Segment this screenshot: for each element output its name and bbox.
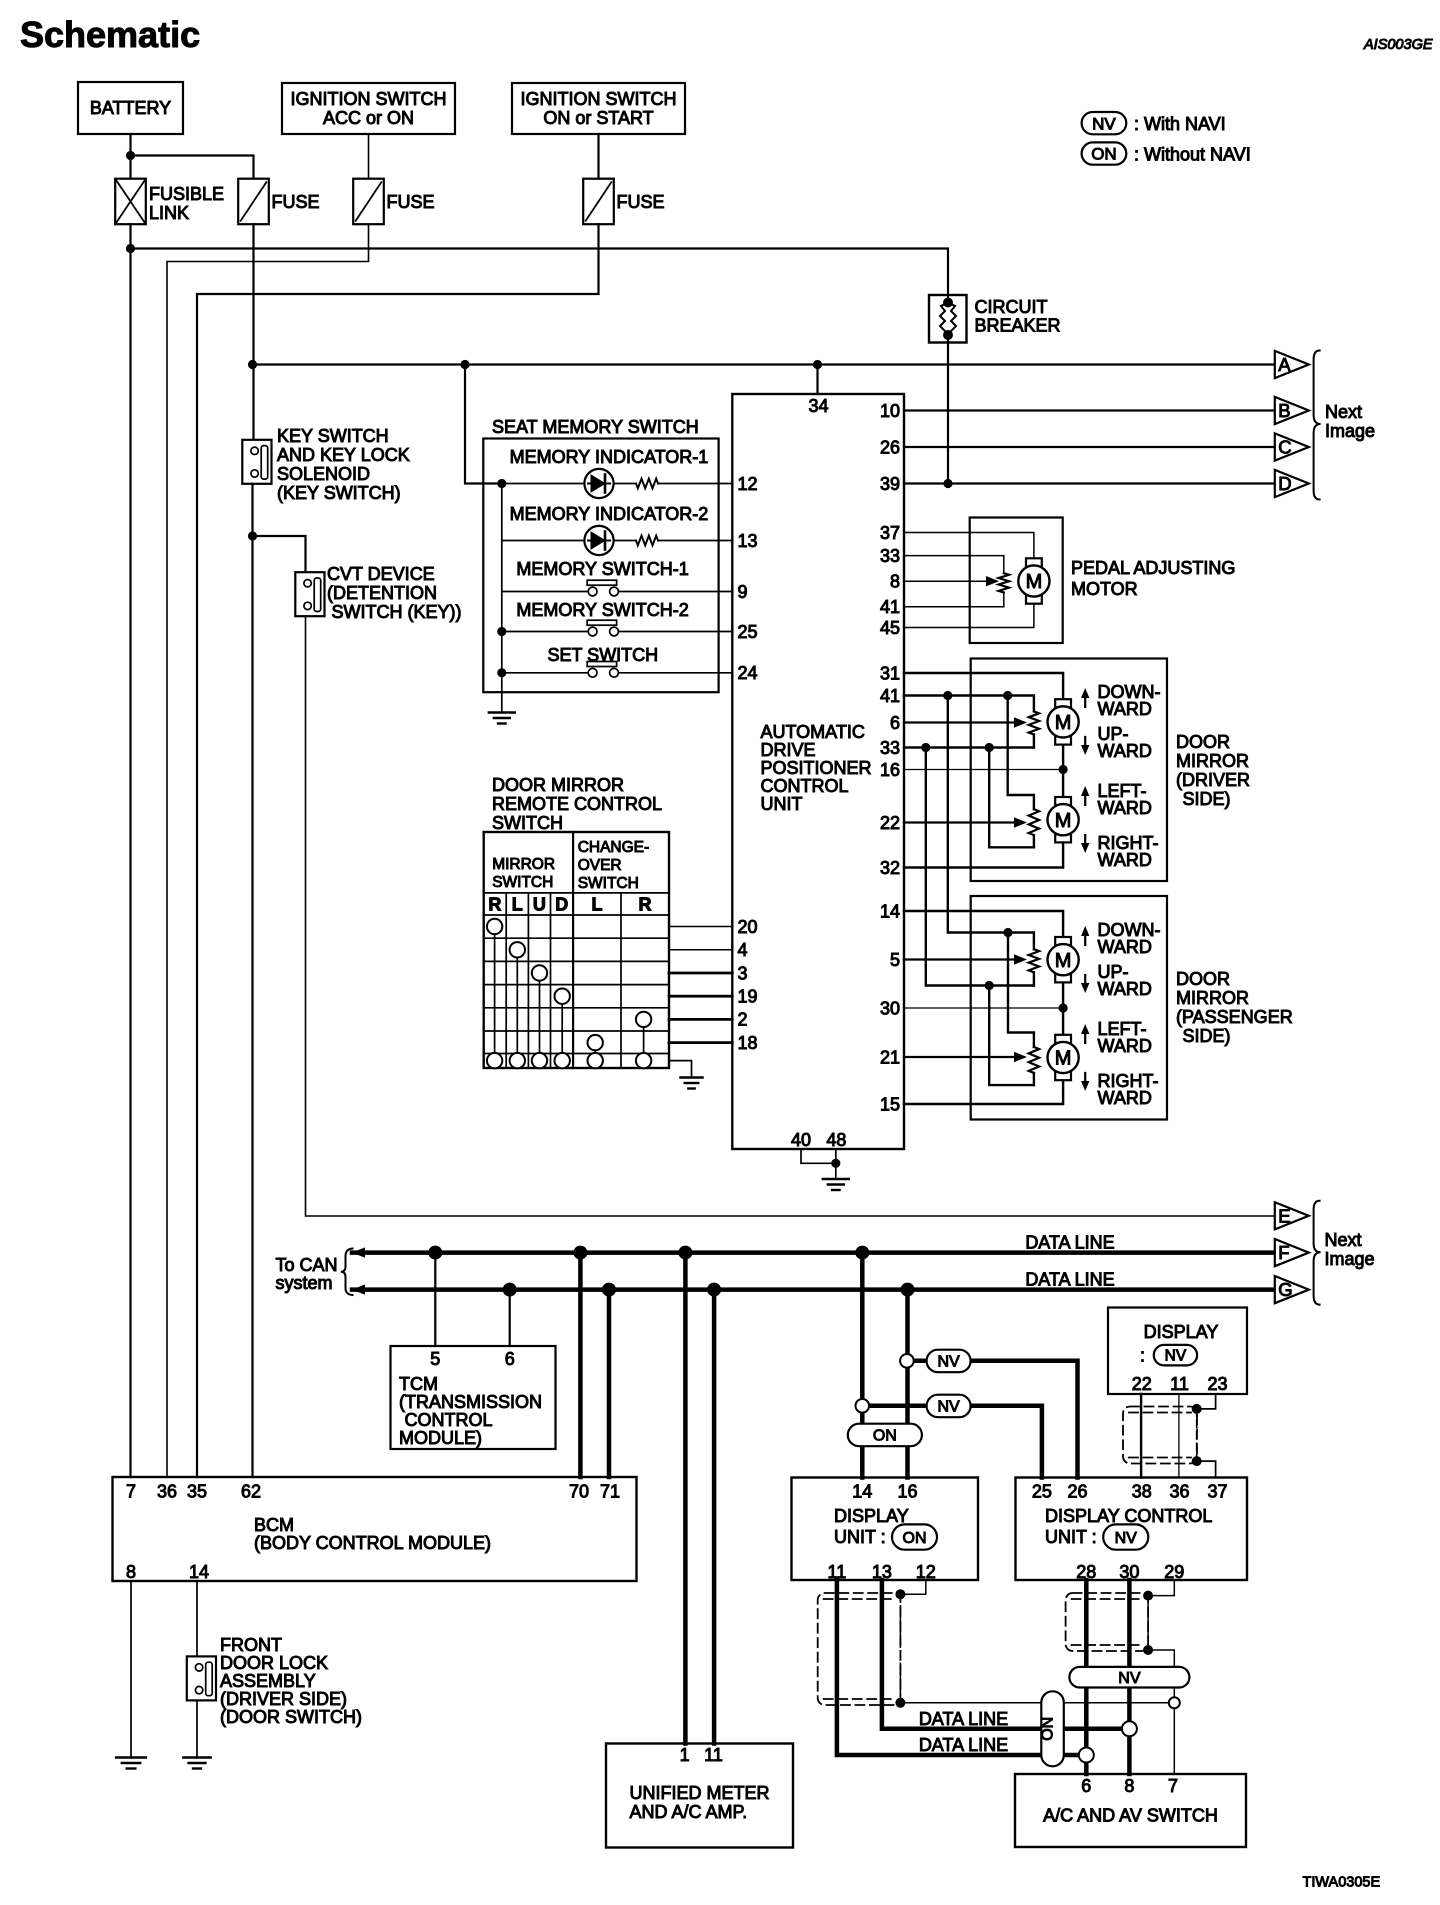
wire TCM pin 5 bbox=[434, 1253, 436, 1346]
svg-text:8: 8 bbox=[126, 1562, 136, 1582]
ignition switch ON or START box bbox=[512, 83, 685, 134]
svg-text:KEY SWITCH: KEY SWITCH bbox=[277, 426, 389, 446]
wire unified meter pin 11 bbox=[712, 1290, 717, 1744]
pin 20 label left bbox=[738, 917, 758, 937]
svg-text:E: E bbox=[1278, 1205, 1290, 1226]
svg-text:DOOR MIRROR: DOOR MIRROR bbox=[492, 775, 624, 795]
svg-text:G: G bbox=[1278, 1279, 1292, 1300]
circuit breaker CB bbox=[929, 295, 1061, 343]
svg-text:36: 36 bbox=[157, 1482, 177, 1502]
svg-text:DATA LINE: DATA LINE bbox=[919, 1735, 1008, 1755]
svg-text:SWITCH: SWITCH bbox=[492, 813, 563, 833]
pin 41 label right bbox=[880, 686, 900, 706]
svg-text:AUTOMATIC: AUTOMATIC bbox=[761, 722, 865, 742]
svg-text:(DOOR SWITCH): (DOOR SWITCH) bbox=[220, 1707, 362, 1727]
wire key switch to BCM pin 62 bbox=[251, 484, 253, 1477]
node 33 passenger leftright branch bbox=[985, 981, 994, 990]
node 41 leftright branch bbox=[1003, 691, 1012, 700]
svg-text:SOLENOID: SOLENOID bbox=[277, 464, 370, 484]
node F to unified meter 1 bbox=[678, 1246, 692, 1260]
pin 13 label left bbox=[738, 531, 758, 551]
pin 5 label right bbox=[890, 950, 900, 970]
svg-text:REMOTE CONTROL: REMOTE CONTROL bbox=[492, 794, 662, 814]
door mirror driver side box bbox=[971, 659, 1167, 882]
ground BCM pin 8 bbox=[116, 1758, 146, 1769]
wire BCM pin 14 to door switch bbox=[196, 1581, 198, 1656]
svg-text:19: 19 bbox=[738, 987, 758, 1007]
pin 12 label left bbox=[738, 474, 758, 494]
mirror driver up-down motor M bbox=[1048, 699, 1079, 744]
svg-text:20: 20 bbox=[738, 917, 758, 937]
svg-text:41: 41 bbox=[880, 686, 900, 706]
svg-text:NV: NV bbox=[1118, 1670, 1141, 1687]
svg-text:R: R bbox=[639, 895, 652, 915]
wire display unit 11 data line bbox=[837, 1580, 1086, 1755]
svg-text:MEMORY INDICATOR-1: MEMORY INDICATOR-1 bbox=[510, 447, 709, 467]
svg-text:WARD: WARD bbox=[1098, 1088, 1152, 1108]
svg-text::: : bbox=[1140, 1346, 1145, 1366]
pin 16 label right bbox=[880, 760, 900, 780]
pin 45 label right bbox=[880, 618, 900, 638]
label data line G bbox=[1025, 1270, 1114, 1290]
svg-text:13: 13 bbox=[738, 531, 758, 551]
svg-text:NV: NV bbox=[937, 1399, 960, 1416]
fuse F1 bbox=[238, 179, 319, 225]
svg-text:Image: Image bbox=[1325, 421, 1375, 441]
svg-text:SIDE): SIDE) bbox=[1183, 1026, 1231, 1046]
node shield drain bottom display bbox=[1192, 1456, 1202, 1466]
node battery rail junction bbox=[126, 244, 135, 253]
wire fuse1 to key switch bbox=[252, 224, 254, 440]
svg-text:M: M bbox=[1055, 810, 1072, 832]
svg-text:ON: ON bbox=[903, 1530, 927, 1547]
wire pin 10 to B bbox=[904, 409, 1274, 411]
svg-text:16: 16 bbox=[880, 760, 900, 780]
svg-text:1: 1 bbox=[680, 1745, 690, 1765]
svg-text:7: 7 bbox=[1168, 1776, 1178, 1796]
svg-text:39: 39 bbox=[880, 474, 900, 494]
svg-text:(KEY SWITCH): (KEY SWITCH) bbox=[277, 483, 401, 503]
svg-text:62: 62 bbox=[241, 1482, 261, 1502]
wire pin 41 to pedal resistor bottom bbox=[904, 593, 1004, 607]
wire pin 45 to pedal motor bottom bbox=[904, 604, 1034, 628]
mirror driver left-right resistor bbox=[1029, 809, 1039, 835]
BCM body control module box bbox=[113, 1477, 637, 1582]
svg-text:(PASSENGER: (PASSENGER bbox=[1176, 1007, 1293, 1027]
wire data line G bbox=[352, 1284, 1274, 1294]
pin 3 label left bbox=[738, 963, 748, 983]
svg-text:10: 10 bbox=[880, 401, 900, 421]
svg-text:48: 48 bbox=[826, 1130, 846, 1150]
title Schematic bbox=[20, 14, 200, 55]
pin 4 label left bbox=[738, 940, 748, 960]
svg-text:Image: Image bbox=[1325, 1249, 1375, 1269]
wire drain 12 to AC switch 7 bbox=[900, 1702, 1174, 1704]
legend NV oval : With NAVI bbox=[1082, 112, 1226, 134]
node 33 leftright branch bbox=[985, 743, 994, 752]
label upward driver bbox=[1098, 724, 1152, 761]
svg-text:DATA LINE: DATA LINE bbox=[1025, 1233, 1114, 1253]
svg-text:34: 34 bbox=[808, 396, 828, 416]
arrow upward passenger bbox=[1081, 975, 1089, 993]
svg-text:8: 8 bbox=[890, 572, 900, 592]
shield display wires bbox=[1123, 1407, 1197, 1464]
node NV branch 14 bbox=[856, 1399, 870, 1413]
fuse F3 bbox=[583, 179, 664, 225]
door mirror passenger side box bbox=[971, 896, 1167, 1120]
node NV branch 16 bbox=[900, 1354, 914, 1368]
svg-text:Next: Next bbox=[1325, 402, 1362, 422]
svg-text:37: 37 bbox=[1207, 1482, 1227, 1502]
NV oval branch 25 bbox=[927, 1395, 971, 1418]
svg-text:11: 11 bbox=[704, 1745, 723, 1765]
svg-text:5: 5 bbox=[890, 950, 900, 970]
svg-text:(BODY CONTROL MODULE): (BODY CONTROL MODULE) bbox=[254, 1533, 491, 1553]
svg-text:DRIVE: DRIVE bbox=[761, 740, 816, 760]
pin 14 label right bbox=[880, 901, 900, 921]
svg-text:IGNITION SWITCH: IGNITION SWITCH bbox=[291, 89, 447, 109]
svg-text:SEAT MEMORY SWITCH: SEAT MEMORY SWITCH bbox=[492, 417, 699, 437]
node drain 29 bottom bbox=[1143, 1645, 1153, 1655]
svg-text:UNIT :: UNIT : bbox=[834, 1527, 886, 1547]
wire ignition ACC to fuse 2 bbox=[368, 134, 370, 179]
svg-text:TIWA0305E: TIWA0305E bbox=[1303, 1875, 1381, 1891]
label leftward passenger bbox=[1098, 1019, 1152, 1056]
svg-text:(DETENTION: (DETENTION bbox=[327, 583, 437, 603]
svg-text:SIDE): SIDE) bbox=[1183, 789, 1231, 809]
arrow downward driver bbox=[1081, 688, 1089, 707]
label door mirror passenger side bbox=[1176, 969, 1293, 1046]
label data line F bbox=[1025, 1233, 1114, 1253]
wire shield drain display bbox=[1196, 1409, 1198, 1461]
wire 41 branch to resistor4 top bbox=[1008, 933, 1034, 1047]
arrow D bbox=[1275, 470, 1309, 497]
automatic drive positioner control unit box U1 bbox=[732, 394, 904, 1149]
svg-text:CONTROL: CONTROL bbox=[761, 776, 849, 796]
wire pin 32 to motor2 bottom bbox=[904, 842, 1063, 867]
wire display 23 to control 37 bbox=[1197, 1394, 1216, 1478]
svg-text:ON or START: ON or START bbox=[543, 108, 653, 128]
svg-text:FRONT: FRONT bbox=[220, 1635, 282, 1655]
svg-text:SWITCH: SWITCH bbox=[492, 874, 553, 891]
svg-text:CVT DEVICE: CVT DEVICE bbox=[327, 564, 435, 584]
node G to BCM 71 bbox=[602, 1283, 616, 1297]
svg-text:NV: NV bbox=[1092, 114, 1116, 133]
wire NV branch to display control 26 bbox=[907, 1361, 1078, 1478]
label pedal adjusting motor bbox=[1071, 558, 1235, 599]
ON oval display unit feed bbox=[848, 1424, 922, 1447]
memory switch-1 bbox=[502, 559, 733, 596]
node G to unified meter 11 bbox=[707, 1283, 721, 1297]
svg-text:DOOR: DOOR bbox=[1176, 732, 1230, 752]
svg-text:F: F bbox=[1278, 1242, 1289, 1263]
AC and AV switch box bbox=[1015, 1774, 1246, 1847]
svg-text:CIRCUIT: CIRCUIT bbox=[975, 297, 1048, 317]
svg-text:12: 12 bbox=[738, 474, 758, 494]
pin 26 label right bbox=[880, 437, 900, 457]
wire display unit 13 data line bbox=[882, 1580, 1130, 1729]
svg-text:CHANGE-: CHANGE- bbox=[578, 839, 649, 856]
svg-text:: Without NAVI: : Without NAVI bbox=[1134, 145, 1251, 165]
svg-text:35: 35 bbox=[187, 1482, 207, 1502]
svg-text:MODULE): MODULE) bbox=[399, 1428, 482, 1448]
memory indicator-2 LED bbox=[502, 504, 733, 555]
svg-text:30: 30 bbox=[880, 998, 900, 1018]
svg-text:DOOR LOCK: DOOR LOCK bbox=[220, 1653, 328, 1673]
wire pin 22 wiper arrow bbox=[904, 817, 1027, 827]
arrow E bbox=[1275, 1202, 1309, 1229]
memory switch-2 bbox=[497, 600, 732, 636]
svg-text:14: 14 bbox=[852, 1482, 872, 1502]
svg-text:NV: NV bbox=[1165, 1348, 1187, 1365]
svg-text:SWITCH (KEY)): SWITCH (KEY)) bbox=[332, 602, 462, 622]
svg-text:7: 7 bbox=[126, 1482, 136, 1502]
wire CVT device to E line bbox=[306, 617, 1274, 1217]
svg-text:D: D bbox=[1278, 473, 1291, 494]
ignition switch ACC or ON box bbox=[282, 83, 455, 134]
mirror driver up-down resistor bbox=[1029, 711, 1039, 734]
svg-text:BATTERY: BATTERY bbox=[90, 98, 171, 118]
NV oval AC feed bbox=[1069, 1667, 1189, 1688]
svg-text:14: 14 bbox=[880, 901, 900, 921]
wire NV branch to display control 25 bbox=[862, 1406, 1042, 1478]
pin 30 label right bbox=[880, 998, 900, 1018]
node circuit breaker on D line bbox=[943, 479, 952, 488]
wire table pin 4 bbox=[669, 949, 732, 951]
wire pin 6 wiper arrow bbox=[904, 717, 1027, 727]
svg-text:: With NAVI: : With NAVI bbox=[1134, 114, 1226, 134]
wire table common to ground bbox=[669, 1061, 692, 1078]
node 41 passenger branch bbox=[943, 691, 952, 700]
display unit ON box bbox=[792, 1478, 979, 1583]
wire 41 feed passenger bbox=[948, 696, 1034, 950]
wire ignition START to fuse 3 bbox=[597, 134, 599, 179]
arrow downward passenger bbox=[1081, 926, 1089, 945]
arrow A bbox=[1275, 351, 1309, 378]
wire 33 feed passenger bbox=[926, 748, 1034, 986]
svg-text:26: 26 bbox=[880, 437, 900, 457]
svg-text:DOOR: DOOR bbox=[1176, 969, 1230, 989]
svg-text:22: 22 bbox=[880, 813, 900, 833]
svg-text:NV: NV bbox=[1115, 1530, 1138, 1547]
node motor link passenger bbox=[1059, 1003, 1068, 1012]
svg-text:ON: ON bbox=[1091, 145, 1117, 164]
wire motor3 to motor4 link bbox=[1062, 983, 1064, 1036]
key switch and key lock solenoid connector bbox=[242, 426, 409, 503]
pedal adjusting motor enclosure bbox=[970, 518, 1063, 644]
display control unit NV box bbox=[1016, 1478, 1248, 1583]
svg-text:WARD: WARD bbox=[1098, 979, 1152, 999]
svg-text:PEDAL ADJUSTING: PEDAL ADJUSTING bbox=[1071, 558, 1235, 578]
svg-text:UNIT :: UNIT : bbox=[1045, 1527, 1097, 1547]
memory indicator-1 LED bbox=[502, 447, 733, 498]
svg-text:4: 4 bbox=[738, 940, 748, 960]
label rightward driver bbox=[1098, 833, 1159, 870]
pin 2 label left bbox=[738, 1010, 748, 1030]
svg-text:12: 12 bbox=[916, 1562, 936, 1582]
arrow rightward passenger bbox=[1081, 1073, 1089, 1091]
node battery branch bbox=[126, 151, 135, 160]
label data line lower bbox=[919, 1735, 1008, 1755]
arrow F bbox=[1275, 1239, 1309, 1266]
label next image top bbox=[1325, 402, 1375, 441]
svg-text:8: 8 bbox=[1124, 1776, 1134, 1796]
wire pin 26 to C bbox=[904, 446, 1274, 448]
brace next image bottom bbox=[1314, 1201, 1321, 1305]
set switch bbox=[497, 645, 732, 677]
wire pin 34 riser bbox=[816, 365, 818, 395]
wire BCM pin 71 bbox=[607, 1290, 612, 1477]
svg-text:14: 14 bbox=[189, 1562, 209, 1582]
svg-text:18: 18 bbox=[738, 1033, 758, 1053]
svg-text:M: M bbox=[1055, 1048, 1072, 1070]
svg-text:MIRROR: MIRROR bbox=[1176, 751, 1249, 771]
svg-text:21: 21 bbox=[880, 1047, 900, 1067]
svg-text:32: 32 bbox=[880, 858, 900, 878]
wire display control 29 drain jog bbox=[1148, 1580, 1174, 1596]
svg-text:Next: Next bbox=[1325, 1230, 1362, 1250]
svg-text:38: 38 bbox=[1132, 1482, 1152, 1502]
svg-text:24: 24 bbox=[738, 663, 758, 683]
pin 24 label left bbox=[738, 663, 758, 683]
mirror passenger up-down motor M bbox=[1048, 937, 1079, 982]
svg-text:DATA LINE: DATA LINE bbox=[1025, 1270, 1114, 1290]
pin 32 label right bbox=[880, 858, 900, 878]
svg-text:DISPLAY: DISPLAY bbox=[834, 1506, 909, 1526]
ground mirror switch bbox=[680, 1078, 702, 1089]
wire branch to seat memory switch bbox=[465, 365, 502, 484]
wire table pin 18 bbox=[669, 1041, 732, 1044]
svg-text:L: L bbox=[592, 895, 603, 915]
svg-text:6: 6 bbox=[505, 1349, 515, 1369]
svg-text:AIS003GE: AIS003GE bbox=[1363, 37, 1433, 53]
ON oval data lines bbox=[1040, 1691, 1064, 1766]
shield display control wires bbox=[1066, 1593, 1149, 1651]
svg-text:Schematic: Schematic bbox=[20, 14, 200, 55]
wire pin 5 wiper arrow bbox=[904, 954, 1027, 964]
svg-text:25: 25 bbox=[1032, 1482, 1052, 1502]
arrow rightward driver bbox=[1081, 835, 1089, 853]
pin 22 label right bbox=[880, 813, 900, 833]
code AIS003GE bbox=[1363, 37, 1433, 53]
wire pin 41 feed bbox=[904, 696, 1034, 712]
wire table pin 3 bbox=[669, 972, 732, 975]
wire unified meter pin 1 bbox=[683, 1253, 688, 1744]
svg-text:To CAN: To CAN bbox=[276, 1255, 338, 1275]
svg-text:45: 45 bbox=[880, 618, 900, 638]
node 33 passenger branch bbox=[921, 743, 930, 752]
svg-text:33: 33 bbox=[880, 738, 900, 758]
pin 18 label left bbox=[738, 1033, 758, 1053]
wire drain 29 bbox=[1147, 1596, 1149, 1650]
CVT device connector bbox=[295, 564, 461, 622]
label leftward driver bbox=[1098, 781, 1152, 818]
pin 39 label right bbox=[880, 474, 900, 494]
svg-text:AND KEY LOCK: AND KEY LOCK bbox=[277, 445, 410, 465]
front door lock assembly connector bbox=[187, 1635, 362, 1727]
wire battery branch to fuse 1 bbox=[131, 156, 254, 179]
node drain 12 top bbox=[895, 1589, 905, 1599]
svg-text:36: 36 bbox=[1169, 1482, 1189, 1502]
pin 25 label left bbox=[738, 622, 758, 642]
label to CAN system bbox=[276, 1249, 353, 1296]
svg-text:FUSIBLE: FUSIBLE bbox=[149, 184, 224, 204]
node motor link bbox=[1059, 765, 1068, 774]
wire battery to fusible link bbox=[129, 134, 131, 179]
wire fuse2 to BCM pin 36 bbox=[167, 224, 369, 1477]
wire 33 branch to resistor4 bottom bbox=[989, 986, 1034, 1086]
wire branch to CVT device bbox=[253, 536, 306, 572]
svg-text:6: 6 bbox=[890, 713, 900, 733]
svg-text:DATA LINE: DATA LINE bbox=[919, 1709, 1008, 1729]
label downward passenger bbox=[1098, 920, 1161, 957]
svg-text:OVER: OVER bbox=[578, 857, 622, 874]
svg-text:31: 31 bbox=[880, 663, 900, 683]
wire pin 16 to motor link bbox=[904, 769, 1063, 771]
pin 40 label bbox=[791, 1130, 811, 1150]
node power line pin 34 branch bbox=[813, 360, 822, 369]
pin 6 label right bbox=[890, 713, 900, 733]
label next image bottom bbox=[1325, 1230, 1375, 1269]
pin 31 label right bbox=[880, 663, 900, 683]
label door mirror remote control switch bbox=[492, 775, 662, 833]
node AC 6 junction bbox=[1079, 1748, 1094, 1763]
svg-text:BREAKER: BREAKER bbox=[975, 316, 1061, 336]
svg-text:ON: ON bbox=[873, 1428, 897, 1445]
arrow C bbox=[1275, 433, 1309, 460]
node F to display unit 14 bbox=[855, 1246, 869, 1260]
svg-text:MEMORY SWITCH-2: MEMORY SWITCH-2 bbox=[516, 600, 688, 620]
arrow upward driver bbox=[1081, 737, 1089, 755]
wire battery feed to circuit breaker bbox=[131, 249, 949, 296]
svg-text:41: 41 bbox=[880, 597, 900, 617]
svg-text:WARD: WARD bbox=[1098, 699, 1152, 719]
wire seat memory to ground bbox=[501, 692, 503, 712]
pin 21 label right bbox=[880, 1047, 900, 1067]
node F to TCM 5 bbox=[428, 1246, 442, 1260]
svg-text:C: C bbox=[1278, 437, 1291, 458]
svg-text:MEMORY INDICATOR-2: MEMORY INDICATOR-2 bbox=[510, 504, 709, 524]
wire door switch to ground bbox=[196, 1700, 198, 1757]
wire drain 29 to AC switch 7 bbox=[1148, 1650, 1174, 1774]
svg-text:WARD: WARD bbox=[1098, 741, 1152, 761]
svg-text:ON: ON bbox=[1040, 1717, 1057, 1741]
svg-text:A: A bbox=[1278, 354, 1291, 375]
arrow leftward driver bbox=[1081, 786, 1089, 805]
code TIWA0305E bbox=[1303, 1875, 1381, 1891]
label downward driver bbox=[1098, 682, 1161, 719]
arrow leftward passenger bbox=[1081, 1024, 1089, 1043]
wire pin 15 to motor4 bottom bbox=[904, 1080, 1063, 1104]
node AC 8 junction bbox=[1122, 1721, 1137, 1736]
pin 8 label right bbox=[890, 572, 900, 592]
svg-text:UNIFIED METER: UNIFIED METER bbox=[630, 1783, 770, 1803]
svg-text:(DRIVER SIDE): (DRIVER SIDE) bbox=[220, 1689, 347, 1709]
wire 41 branch to resistor2 top bbox=[1008, 696, 1034, 810]
node F to BCM 70 bbox=[573, 1246, 587, 1260]
wire pin 39 to D bbox=[904, 482, 1274, 484]
svg-text:UNIT: UNIT bbox=[761, 794, 803, 814]
node CVT branch bbox=[248, 531, 257, 540]
wire BCM pin 70 bbox=[578, 1253, 583, 1477]
svg-text:16: 16 bbox=[897, 1482, 917, 1502]
svg-text:33: 33 bbox=[880, 546, 900, 566]
wire display control 28 to AC 6 bbox=[1084, 1580, 1089, 1774]
svg-text:22: 22 bbox=[1132, 1374, 1152, 1394]
TCM box bbox=[391, 1346, 556, 1449]
wire pin 14 to mirror motor 3 top bbox=[904, 911, 1063, 937]
pedal adjusting motor M bbox=[1018, 558, 1049, 603]
